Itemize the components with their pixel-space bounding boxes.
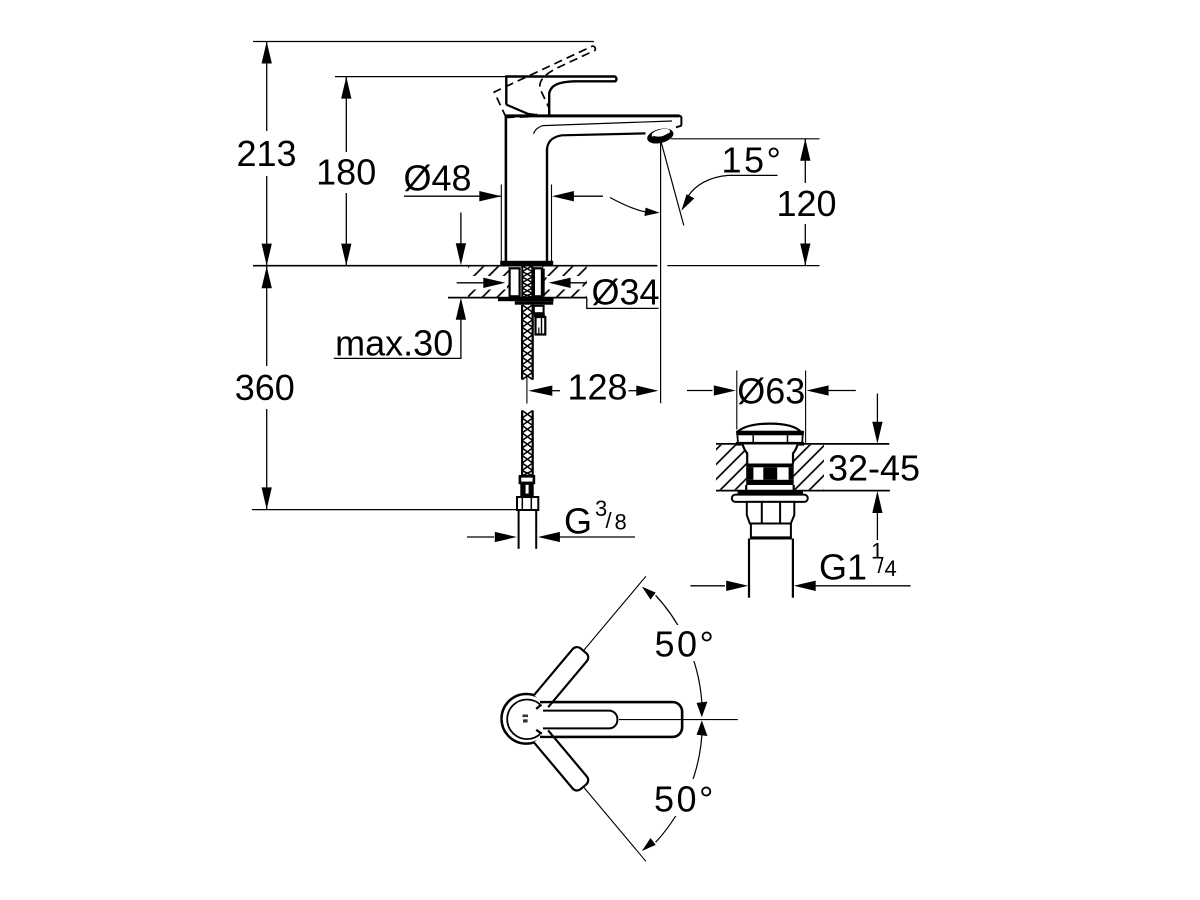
mounting right edge line (542, 269, 544, 297)
dimension 180 line (345, 77, 347, 266)
hub tick lower (536, 730, 542, 734)
locknut bar (515, 301, 553, 305)
hose ferrule (520, 476, 534, 483)
top view handle lower (534, 730, 591, 792)
hub inner circle (507, 700, 547, 740)
reference line top 213 (253, 41, 594, 43)
svg-text:32-45: 32-45 (828, 448, 920, 489)
dimension O63 (687, 390, 713, 392)
supply hose upper braid (522, 305, 533, 380)
svg-text:G1: G1 (819, 547, 867, 588)
15 deg arc left with arrow (610, 198, 648, 213)
drain tailpipe (748, 539, 750, 598)
50 deg line upper (583, 576, 646, 651)
counter bottom line (448, 297, 587, 299)
drain cap ticks (752, 435, 754, 442)
dimension G1 1/4 (690, 585, 725, 587)
hub outer circle (502, 694, 552, 744)
dimension 32-45 line (876, 394, 878, 423)
supply pipe (518, 510, 520, 549)
drain cap bottom bar (736, 442, 804, 446)
O34 arrows (457, 282, 484, 284)
dimension 213 arrows (262, 42, 272, 266)
32-45 halo (824, 449, 923, 487)
faucet base plate (500, 261, 553, 266)
drain cap brim band (736, 431, 804, 436)
handle base bottom edge (506, 105, 536, 115)
top view spout inner fill (543, 711, 617, 729)
counter hatch left (468, 267, 509, 297)
15 deg slant line (661, 140, 684, 226)
svg-text:8: 8 (615, 510, 627, 535)
max.30 annotation (460, 213, 462, 245)
handle solid outline (506, 76, 616, 114)
spout tip end (676, 116, 681, 127)
svg-text:360: 360 (235, 367, 295, 408)
supply hose lower braid (522, 411, 533, 477)
threaded shank (522, 266, 532, 298)
svg-text:Ø34: Ø34 (591, 272, 659, 313)
50 deg text lower halo (649, 779, 719, 816)
svg-text:4: 4 (885, 556, 897, 581)
faucet body right edge (546, 149, 548, 262)
counter top line (253, 265, 657, 267)
drain counter hatch (716, 445, 746, 490)
svg-text:Ø48: Ø48 (403, 158, 471, 199)
50 deg text upper halo (650, 625, 720, 661)
hub logo marks (523, 715, 529, 718)
dimension 213 line (266, 42, 268, 266)
drain transition (751, 524, 791, 539)
svg-text:180: 180 (316, 152, 376, 193)
svg-text:128: 128 (567, 367, 627, 408)
hose centerline gap (526, 377, 528, 404)
dimension G3/8 (467, 536, 494, 538)
svg-text:213: 213 (236, 133, 296, 174)
arrow halo left (452, 276, 507, 290)
svg-text:15°: 15° (722, 140, 784, 181)
drain cap side walls (736, 435, 739, 442)
drain cap dome (737, 424, 802, 433)
drain lower walls (745, 485, 747, 491)
G3/8 text (564, 496, 627, 542)
handle raised dashed (494, 45, 610, 127)
faucet body left edge (505, 115, 508, 262)
O34 label flag (587, 298, 659, 309)
top view spout outline re-stroke (540, 702, 682, 737)
faucet body top edge (505, 114, 680, 117)
svg-text:G: G (564, 501, 592, 542)
top view centerline (619, 719, 738, 721)
dimension 128 (528, 386, 552, 396)
hose side stub (534, 306, 544, 313)
drain neck (741, 445, 799, 464)
120 reference line (671, 138, 820, 140)
svg-text:120: 120 (776, 183, 836, 224)
top view spout inner outline (543, 711, 617, 729)
svg-text:Ø63: Ø63 (737, 371, 805, 412)
counter hatch right (543, 267, 587, 297)
washer bar (498, 297, 554, 301)
hub tick upper (536, 705, 541, 709)
mounting right piece (534, 268, 542, 296)
dimension 180 arrows (341, 77, 351, 266)
50 deg arc lower (656, 728, 703, 843)
G3/8 nut (517, 497, 538, 510)
15 deg leader with arrow (688, 175, 778, 197)
top view handle upper (534, 645, 591, 707)
O48 extension lines (500, 185, 502, 262)
dimension 360 (266, 266, 268, 366)
drain washer seal (738, 491, 803, 495)
top view spout outline (540, 702, 682, 737)
drain washer (732, 495, 808, 502)
reference line 180 (335, 76, 507, 78)
spout underside corner curve (547, 133, 646, 150)
drain slot band (746, 464, 794, 468)
top view spout white fill (540, 702, 682, 737)
svg-text:/: / (878, 553, 885, 578)
arrow halo right (547, 276, 583, 290)
bottom reference line (252, 509, 517, 511)
drain locknut (747, 502, 795, 524)
50 deg line lower (583, 787, 646, 862)
15 deg vertical line from aerator (660, 143, 662, 403)
svg-text:/: / (606, 508, 613, 533)
aerator inner line (653, 134, 668, 138)
hose crimp block (520, 483, 533, 497)
dimension 120 line (804, 139, 806, 183)
drain counter bottom line (716, 490, 890, 492)
mounting left piece (510, 268, 520, 296)
drain counter top line (716, 443, 889, 445)
svg-text:50°: 50° (654, 779, 716, 820)
O63 extension lines (736, 371, 738, 430)
svg-text:50°: 50° (655, 624, 717, 665)
50 deg arc upper (656, 595, 703, 710)
aerator outer (646, 126, 675, 146)
spout reflection line (534, 121, 673, 134)
svg-text:max.30: max.30 (335, 323, 453, 364)
